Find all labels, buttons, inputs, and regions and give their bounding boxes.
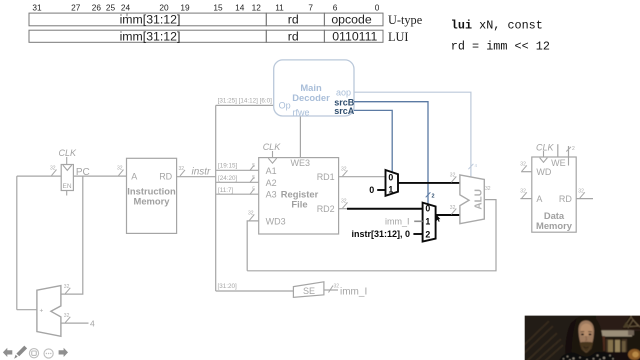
slash 5 on A2: [250, 175, 256, 183]
svg-text:5: 5: [252, 163, 255, 169]
toolbar more icon: [44, 349, 53, 358]
person nose: [585, 336, 587, 341]
svg-text:[19:15]: [19:15]: [218, 162, 238, 169]
svg-text:WE3: WE3: [291, 158, 311, 168]
person beard: [580, 342, 594, 353]
webcam tan columns: [606, 339, 627, 356]
svg-text:rd = imm << 12: rd = imm << 12: [451, 40, 550, 54]
slash 32 on adder PC input: [64, 284, 71, 294]
svg-text:32: 32: [64, 313, 70, 319]
svg-text:32: 32: [578, 189, 584, 195]
svg-text:1: 1: [388, 185, 393, 195]
svg-text:imm[31:12]: imm[31:12]: [120, 13, 181, 27]
webcam chandelier: [622, 314, 640, 329]
mouse cursor: [436, 214, 440, 222]
svg-text:SE: SE: [303, 286, 315, 296]
svg-text:opcode: opcode: [331, 13, 372, 27]
U-type row boxes: [29, 13, 383, 26]
wire A3 tap: [216, 193, 259, 195]
svg-text:EN: EN: [63, 183, 72, 190]
slash 32 on WD: [520, 162, 527, 172]
svg-text:32: 32: [520, 189, 526, 195]
wire instr from Instruction Memory: [177, 176, 216, 178]
title Register File: [281, 189, 319, 210]
svg-text:instr: instr: [192, 167, 212, 178]
register file clock triangle: [268, 158, 276, 163]
svg-text:32: 32: [248, 211, 254, 217]
svg-text:1: 1: [425, 217, 430, 227]
register file box: [259, 158, 339, 234]
wire srcA mux output to ALU: [398, 182, 460, 184]
slash on data memory control: [566, 146, 575, 152]
slash 32 on WD3: [248, 211, 254, 221]
svg-text:CLK: CLK: [59, 148, 78, 158]
wire A1 tap: [216, 169, 259, 171]
svg-text:LUI: LUI: [388, 30, 409, 44]
wire srcB mux output to ALU: [436, 214, 460, 216]
U-type row field labels: [120, 13, 372, 27]
svg-text:CLK: CLK: [536, 142, 555, 152]
svg-text:rd: rd: [288, 13, 299, 27]
svg-text:[24:20]: [24:20]: [218, 175, 238, 182]
svg-text:rd: rd: [288, 30, 299, 44]
instruction-format table bit numbers: [32, 3, 379, 13]
instruction memory box: [127, 158, 177, 233]
slash 32 on RD1: [341, 167, 348, 177]
svg-text:A1: A1: [266, 166, 277, 176]
svg-text:32: 32: [450, 205, 456, 211]
wire Data Memory control stub: [568, 146, 570, 166]
svg-text:6: 6: [333, 3, 338, 13]
svg-text:15: 15: [213, 3, 223, 13]
slash 2 on srcB select: [426, 192, 435, 199]
svg-text:7: 7: [308, 3, 313, 13]
svg-text:ALU: ALU: [473, 189, 484, 210]
svg-text:19: 19: [180, 3, 190, 13]
svg-text:25: 25: [106, 3, 116, 13]
data memory box: [532, 157, 576, 232]
slash 32 on A: [520, 189, 527, 199]
svg-text:32: 32: [485, 186, 491, 192]
svg-text:imm[31:12]: imm[31:12]: [120, 30, 181, 44]
title Instruction Memory: [127, 186, 176, 207]
svg-text:2: 2: [572, 146, 575, 152]
svg-text:[31:25] [14:12] [6:0]: [31:25] [14:12] [6:0]: [218, 98, 273, 105]
slash 32 on RD2: [341, 199, 348, 209]
slash 32 on PCNext: [50, 166, 57, 176]
webcam background room: [523, 314, 640, 360]
toolbar back arrow: [3, 348, 12, 357]
main decoder title: [292, 82, 330, 103]
svg-text:32: 32: [64, 284, 70, 290]
svg-text:14: 14: [235, 3, 245, 13]
svg-text:srcA: srcA: [334, 106, 355, 116]
slash 32 on instr: [179, 166, 186, 176]
WE wire inside: [568, 157, 570, 166]
wire PC branch down to adder: [61, 176, 83, 294]
person face: [579, 321, 595, 351]
wire instr vertical bus: [215, 105, 217, 291]
svg-text:PC: PC: [76, 167, 90, 178]
wire RD2 to srcB mux input0: [347, 208, 423, 210]
register file CLK: [263, 142, 282, 158]
wire Data Memory WD stub: [521, 171, 532, 173]
svg-text:32: 32: [117, 166, 123, 172]
wire A2 tap: [216, 181, 259, 183]
wire srcA select: [354, 110, 392, 172]
LUI row boxes: [29, 30, 383, 42]
svg-text:32: 32: [50, 166, 56, 172]
svg-text:0: 0: [375, 3, 380, 13]
wire PC to Instruction Memory A: [73, 175, 126, 177]
svg-text:RD1: RD1: [317, 172, 335, 182]
svg-text:instr[31:12], 0: instr[31:12], 0: [352, 229, 411, 239]
person shirt: [558, 352, 617, 360]
wire aop to ALU: [354, 92, 471, 177]
svg-text:imm_I: imm_I: [340, 287, 367, 298]
svg-text:RD2: RD2: [317, 204, 335, 214]
wire WD3 vertical: [247, 221, 259, 271]
svg-text:0: 0: [388, 173, 393, 183]
svg-text:5: 5: [252, 175, 255, 181]
svg-text:RD: RD: [559, 194, 572, 204]
svg-text:A3: A3: [266, 189, 277, 199]
label imm_I into mux input1: [385, 216, 423, 226]
svg-text:2: 2: [425, 230, 430, 240]
svg-text:imm_I: imm_I: [385, 216, 410, 226]
svg-text:File: File: [291, 199, 307, 210]
wire RD2 stub at register file: [339, 208, 348, 210]
slash 32 on imm_I: [329, 284, 340, 293]
slash 32 on PC to IM: [117, 166, 124, 176]
ALU U3: [460, 175, 484, 224]
svg-text:Memory: Memory: [134, 196, 171, 207]
svg-text:24: 24: [121, 3, 131, 13]
webcam ceiling dark: [596, 314, 640, 331]
svg-text:4: 4: [90, 318, 95, 328]
svg-text:WD3: WD3: [266, 216, 286, 226]
svg-text:0110111: 0110111: [332, 30, 377, 44]
slash 5 on A1: [250, 163, 256, 171]
svg-text:A: A: [131, 172, 137, 182]
svg-text:Decoder: Decoder: [292, 92, 330, 103]
svg-text:0: 0: [369, 185, 374, 195]
svg-text:26: 26: [92, 3, 102, 13]
svg-text:27: 27: [71, 3, 81, 13]
svg-text:0: 0: [425, 203, 430, 213]
svg-text:Memory: Memory: [536, 220, 573, 231]
person hair: [569, 315, 603, 360]
svg-text:32: 32: [334, 284, 340, 290]
wire srcB select: [354, 102, 428, 204]
svg-text:2: 2: [432, 194, 435, 200]
svg-text:[31:20]: [31:20]: [218, 283, 238, 290]
svg-text:[11:7]: [11:7]: [218, 187, 234, 194]
svg-text:11: 11: [275, 3, 284, 13]
slash on aop: [468, 163, 477, 169]
webcam overlay: [522, 314, 640, 360]
toolbar forward arrow: [59, 348, 68, 357]
sign extender SE: [293, 282, 324, 298]
webcam wood slats: [522, 321, 563, 360]
svg-text:5: 5: [252, 187, 255, 193]
title Data Memory: [536, 210, 573, 231]
wire ALUResult feedback: [247, 200, 496, 271]
wire PCNext into PC: [17, 175, 61, 177]
slash 32 on ALU srcA input: [450, 173, 457, 183]
svg-text:+: +: [40, 308, 44, 315]
wire RD1 to mux input0: [339, 176, 386, 178]
svg-text:A: A: [536, 194, 542, 204]
svg-text:RD: RD: [159, 172, 172, 182]
wire SE output stub: [324, 289, 338, 291]
svg-text:12: 12: [252, 3, 262, 13]
data memory clock triangle: [540, 158, 548, 163]
svg-text:31: 31: [32, 3, 42, 13]
mux srcB black: [423, 203, 436, 242]
webcam corner lamp glow: [628, 349, 640, 360]
wire Data Memory A stub: [520, 198, 531, 200]
toolbar pencil: [14, 346, 27, 359]
svg-text:20: 20: [159, 3, 169, 13]
svg-text:32: 32: [341, 167, 347, 173]
svg-text:lui xN, const: lui xN, const: [451, 19, 543, 33]
wire imm tap to SE: [216, 290, 294, 292]
toolbar shape icon: [29, 349, 38, 358]
svg-text:CLK: CLK: [263, 142, 282, 152]
PC register: [59, 148, 78, 196]
wire rfwe decoder to WE3: [299, 116, 301, 158]
mux srcA black: [386, 170, 399, 196]
svg-text:aop: aop: [336, 87, 351, 97]
LUI row field labels: [120, 30, 378, 44]
webcam bright wall band: [597, 330, 632, 336]
label instr[31:12],0 into mux input2: [352, 229, 423, 239]
svg-text:A2: A2: [266, 178, 277, 188]
svg-text:U-type: U-type: [388, 13, 423, 27]
wire Data Memory WE stub: [557, 144, 559, 157]
wire Op tap to Main Decoder: [216, 104, 274, 106]
slash 32 on ALU srcB input: [450, 205, 457, 215]
webcam red cabinet: [596, 336, 605, 351]
wire adder output: [17, 309, 37, 311]
svg-text:WE: WE: [551, 158, 566, 168]
svg-text:Op: Op: [279, 100, 291, 110]
svg-text:rfwe: rfwe: [293, 107, 310, 117]
slash 5 on A3: [250, 187, 256, 195]
svg-text:WD: WD: [536, 167, 551, 177]
slash 32 on adder 4 input: [64, 313, 71, 323]
PC adder: [37, 286, 61, 337]
webcam dark sofa band: [596, 352, 640, 360]
main decoder box: [274, 60, 354, 116]
person eyes: [581, 333, 592, 335]
wire Data Memory RD stub: [576, 198, 593, 200]
data memory CLK: [536, 142, 555, 157]
svg-text:32: 32: [520, 162, 526, 168]
slash 32 on RD: [578, 189, 585, 199]
wire PCNext vertical (adder output up to PC input): [16, 176, 18, 310]
svg-text:32: 32: [450, 173, 456, 179]
svg-text:32: 32: [179, 166, 185, 172]
constant 0 into srcA mux: [369, 185, 385, 195]
wire adder 4-input: [61, 322, 89, 324]
svg-text:32: 32: [341, 199, 347, 205]
